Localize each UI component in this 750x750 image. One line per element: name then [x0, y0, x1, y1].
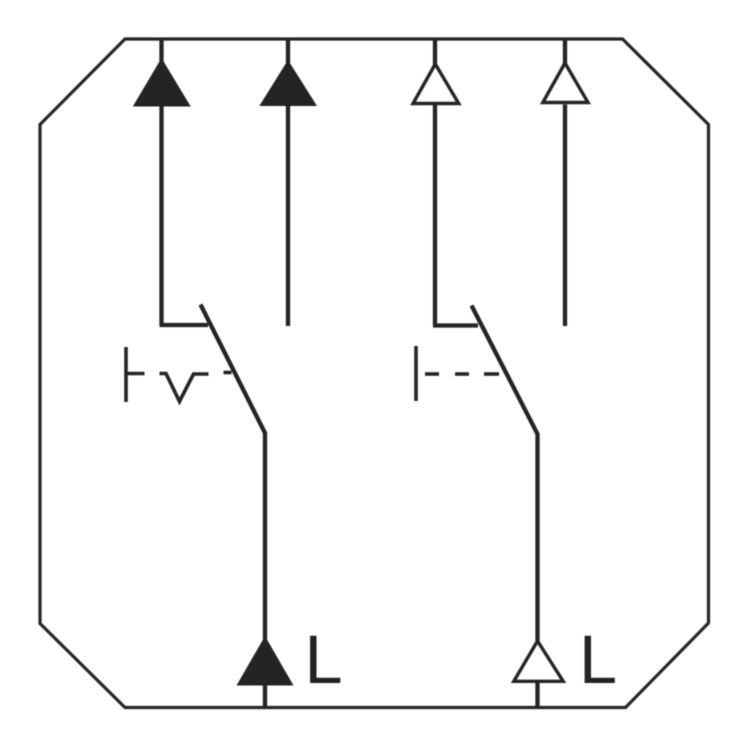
svg-text:L: L — [579, 621, 617, 698]
svg-text:L: L — [305, 621, 343, 698]
